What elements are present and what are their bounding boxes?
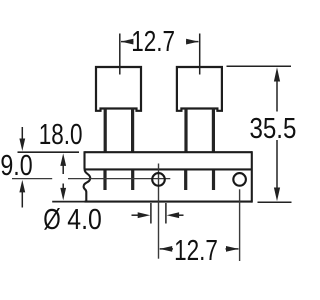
svg-text:Ø: Ø <box>43 203 61 235</box>
carrier tape right edge <box>251 151 253 202</box>
lead 4 inside tape <box>212 170 215 190</box>
dimension 35.5 right: down arrow <box>276 140 278 190</box>
dimension 12.7 top: extension line left (component 1 center) <box>119 34 121 75</box>
dimension 18.0 left: inside up arrow <box>60 153 66 166</box>
dimension dia 4.0: right extension line <box>165 203 167 224</box>
dimension 18.0 left: top extension line <box>18 151 80 153</box>
dimension 9.0 left: outside up arrow below centerline <box>19 180 25 193</box>
component body 2 (box capacitor) <box>177 67 222 111</box>
lead 1 inside tape <box>103 170 106 190</box>
dimension 18.0 left: inside down arrow <box>62 184 64 190</box>
dimension dia 4.0: left-pointing arrow <box>167 212 180 218</box>
dimension 35.5 right: up arrow <box>274 67 280 81</box>
dimension 35.5 right: top extension line <box>227 65 292 67</box>
dimension 12.7 top: left arrow <box>121 39 133 45</box>
svg-text:9.0: 9.0 <box>0 149 32 181</box>
carrier tape left edge with break <box>84 151 91 201</box>
lead 2 of component 2 <box>212 108 215 152</box>
dimension 18.0 left: outside down arrow <box>21 127 23 140</box>
svg-text:12.7: 12.7 <box>174 234 218 266</box>
sprocket hole 2 <box>233 173 246 186</box>
lead 2 inside tape <box>131 170 134 190</box>
lead 1 of component 2 <box>184 108 187 152</box>
svg-text:12.7: 12.7 <box>131 25 175 57</box>
carrier tape hold-down line <box>85 168 253 170</box>
sprocket hole 2 centerline vertical <box>239 189 241 261</box>
dimension dia 4.0: right-pointing arrow <box>132 214 140 216</box>
dimension 12.7 bottom: right arrow <box>226 246 239 252</box>
component body 1 (box capacitor) <box>96 67 141 111</box>
lead 1 of component 1 <box>104 108 107 152</box>
svg-text:18.0: 18.0 <box>39 118 83 150</box>
sprocket hole 1 centerline vertical <box>158 164 160 259</box>
sprocket hole centerline horizontal <box>12 178 52 180</box>
dimension dia 4.0: left extension line <box>150 203 152 224</box>
dimension 12.7 top: right arrow <box>186 39 199 45</box>
lead 3 inside tape <box>184 170 187 190</box>
dimension 12.7 top: extension line right (component 2 center) <box>199 34 201 75</box>
carrier tape top edge <box>85 151 253 153</box>
dimension 18.0 left: bottom extension line <box>52 201 84 203</box>
dimension 12.7 bottom: left arrow <box>160 246 173 252</box>
lead 2 of component 1 <box>131 108 134 152</box>
svg-text:4.0: 4.0 <box>67 203 102 235</box>
sprocket hole 1 <box>152 173 165 186</box>
dimension 35.5 right: bottom extension line <box>258 201 292 203</box>
carrier tape bottom edge <box>85 201 253 203</box>
svg-text:35.5: 35.5 <box>250 112 297 144</box>
